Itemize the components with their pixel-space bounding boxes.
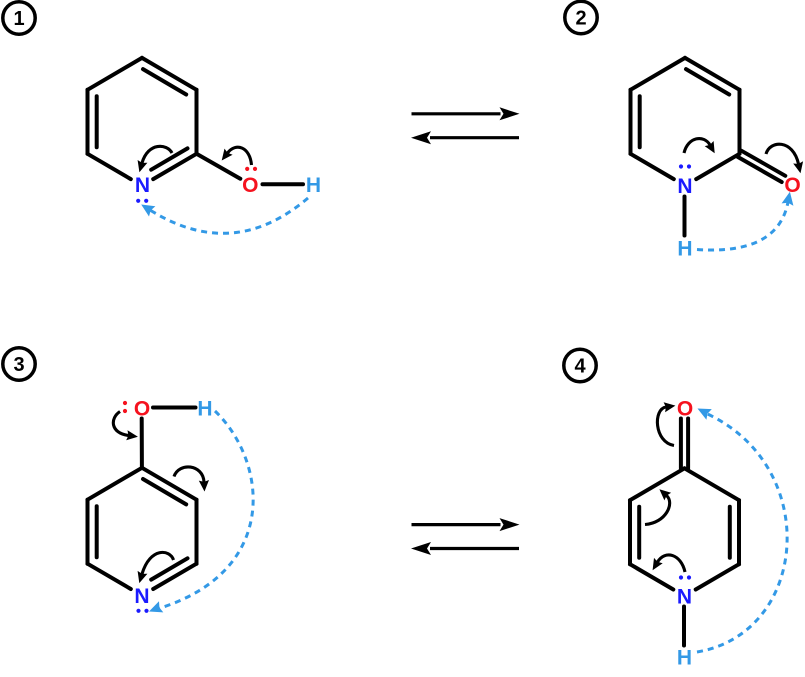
svg-text:2: 2 xyxy=(575,8,586,30)
svg-text:O: O xyxy=(784,174,800,197)
svg-text:H: H xyxy=(197,398,212,421)
svg-text:H: H xyxy=(677,238,692,261)
svg-text:H: H xyxy=(306,174,321,197)
svg-text:O: O xyxy=(134,398,150,421)
svg-text:O: O xyxy=(677,398,693,421)
svg-text:1: 1 xyxy=(13,8,24,30)
svg-text:N: N xyxy=(134,585,149,608)
svg-text:N: N xyxy=(677,586,692,609)
svg-text:4: 4 xyxy=(574,356,586,378)
svg-text:O: O xyxy=(242,174,258,197)
svg-text:N: N xyxy=(135,174,150,197)
svg-text:N: N xyxy=(677,175,692,198)
svg-text:3: 3 xyxy=(13,354,24,376)
svg-text:H: H xyxy=(677,647,692,670)
